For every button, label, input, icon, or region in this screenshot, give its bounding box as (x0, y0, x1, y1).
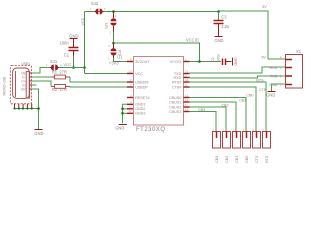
svg-text:CTS: CTS (255, 155, 259, 163)
svg-text:SJ2: SJ2 (91, 1, 99, 6)
svg-text:CBUS1: CBUS1 (169, 100, 181, 104)
junction 5V rail at SJ3 (112, 10, 115, 13)
wire VCC vertical rail (84, 12, 86, 74)
svg-text:4: 4 (130, 100, 132, 104)
svg-text:2: 2 (115, 14, 117, 18)
U1 pin 3V3OUT (127, 57, 150, 64)
U1 pin RXD (174, 73, 190, 80)
svg-text:2: 2 (130, 78, 132, 82)
svg-text:VCC: VCC (135, 72, 143, 76)
svg-text:3: 3 (130, 93, 132, 97)
svg-text:U1: U1 (117, 54, 123, 59)
connector USB1 dashed outline (2, 62, 31, 104)
svg-text:5: 5 (185, 103, 187, 107)
svg-text:100n: 100n (60, 40, 70, 45)
wire RXD to X1 (190, 76, 286, 78)
svg-text:2: 2 (104, 7, 106, 11)
U1 pin VCC (127, 69, 143, 76)
svg-text:RTS#: RTS# (172, 80, 182, 84)
svg-text:RESET#: RESET# (135, 96, 150, 100)
svg-text:14: 14 (185, 107, 189, 111)
svg-text:1: 1 (222, 127, 224, 131)
svg-text:1: 1 (46, 63, 48, 67)
solder jumper SJ3 (105, 12, 117, 35)
svg-text:+3V3: +3V3 (109, 61, 119, 66)
capacitor C3 2.2u (214, 12, 230, 37)
wire SJ1 to VCC rail (59, 67, 85, 69)
svg-text:GND2: GND2 (135, 107, 145, 111)
U1 pin RTS# (172, 78, 190, 85)
svg-text:SJ1: SJ1 (50, 59, 58, 64)
wire R2 to USBDP (70, 85, 127, 88)
svg-text:1: 1 (232, 127, 234, 131)
wire VCCIO to C2 (190, 61, 221, 63)
svg-text:CTS#: CTS# (172, 85, 182, 89)
svg-text:C3: C3 (221, 15, 227, 20)
solder jumper SJ1 (46, 59, 72, 70)
wire GND2 join (123, 108, 128, 110)
junction GND shield (37, 107, 40, 110)
svg-text:FT230XQ: FT230XQ (136, 127, 166, 133)
wire CBUS1 to pad (190, 102, 236, 132)
svg-text:VCC: VCC (81, 17, 85, 25)
svg-text:5V: 5V (262, 5, 267, 9)
svg-text:10: 10 (128, 69, 132, 73)
svg-text:RXD: RXD (174, 76, 182, 80)
wire CTS to pad (190, 87, 256, 132)
svg-text:1: 1 (242, 127, 244, 131)
svg-text:GND: GND (69, 33, 78, 38)
U1 pin USBDP (127, 83, 148, 90)
wire RTS to pad (190, 82, 266, 132)
resistor R2 27R (51, 85, 70, 93)
svg-text:4: 4 (185, 83, 187, 87)
svg-text:CB0: CB0 (246, 94, 253, 98)
U1 pin CBUS2 (169, 103, 190, 110)
svg-text:USBDM: USBDM (135, 80, 148, 84)
svg-text:GN: GN (21, 87, 26, 91)
svg-text:VCCIO: VCCIO (186, 38, 199, 43)
svg-text:CTS: CTS (259, 88, 267, 92)
svg-text:CB1: CB1 (235, 156, 239, 163)
solder jumper SJ4 (108, 43, 122, 60)
U1 pin USBDM (127, 78, 149, 85)
junction shield pins (13, 107, 32, 109)
U1 pin GND3 (127, 109, 145, 116)
svg-text:VCCIO: VCCIO (170, 60, 182, 64)
svg-text:X1: X1 (296, 49, 302, 54)
connector USB1 shell (13, 68, 30, 98)
svg-text:100n: 100n (216, 54, 220, 62)
svg-text:2: 2 (280, 74, 282, 78)
wire GND1 join (123, 104, 128, 123)
svg-text:RXD: RXD (270, 66, 278, 70)
test pad CB1 (232, 127, 240, 162)
wire R1 to USBDM (70, 77, 127, 82)
connector X1 (286, 49, 303, 88)
capacitor C1 100n with GND above (60, 33, 79, 57)
U1 pin TXD (174, 69, 190, 76)
test pad CB2 (222, 127, 230, 162)
svg-text:1: 1 (262, 127, 264, 131)
svg-text:13: 13 (185, 98, 189, 102)
svg-text:C1: C1 (64, 52, 70, 57)
op IC U1 FT230XQ box (134, 57, 184, 126)
wire CBUS0 to pad (190, 98, 246, 132)
svg-text:2: 2 (108, 44, 110, 48)
svg-text:CB3: CB3 (215, 156, 219, 163)
svg-text:GND: GND (214, 38, 223, 43)
svg-text:SJ3: SJ3 (105, 23, 109, 29)
junction GND2 (121, 108, 124, 111)
U1 pin GND1 (127, 100, 145, 107)
ground symbol below C3 (215, 36, 223, 38)
svg-text:CB0: CB0 (245, 156, 249, 163)
svg-text:3V3OUT: 3V3OUT (135, 60, 150, 64)
capacitor C2 100n (211, 54, 232, 65)
svg-text:VCC: VCC (63, 63, 71, 67)
svg-text:C2: C2 (211, 57, 215, 62)
svg-text:GND: GND (115, 125, 124, 130)
svg-text:1: 1 (89, 7, 91, 11)
svg-text:4: 4 (280, 55, 282, 59)
U1 pin GND2 (127, 105, 145, 112)
USB1 shield pins (15, 104, 32, 109)
svg-text:16: 16 (185, 78, 189, 82)
wire D+ to R2 (32, 81, 51, 86)
ground symbol right of C2 (232, 58, 234, 66)
U1 pin RESET# (127, 93, 150, 100)
U1 pin CBUS0 (169, 93, 190, 100)
wire C1 to VCC node (73, 56, 75, 68)
svg-text:CBUS2: CBUS2 (169, 105, 181, 109)
svg-text:7: 7 (130, 83, 132, 87)
svg-text:RTS: RTS (256, 78, 264, 82)
svg-text:3: 3 (280, 66, 282, 70)
svg-text:CB2: CB2 (221, 103, 228, 107)
svg-text:USBDP: USBDP (135, 85, 148, 89)
test pad CB3 (212, 127, 220, 162)
svg-text:1: 1 (252, 127, 254, 131)
svg-text:5V: 5V (261, 55, 266, 59)
wire VBUS from USB to SJ1 (32, 68, 50, 74)
svg-text:CBUS3: CBUS3 (169, 110, 181, 114)
test pad CB0 (242, 127, 250, 162)
test pad RTS (262, 127, 270, 162)
wire TXD to X1 (190, 67, 286, 73)
resistor R1 27R (51, 70, 70, 79)
wire shield bus (15, 108, 39, 110)
ground symbol below X1 (268, 91, 276, 93)
junction VCCIO (198, 60, 201, 63)
svg-text:MICRO-USB: MICRO-USB (2, 76, 6, 96)
svg-text:GND: GND (233, 58, 237, 67)
svg-text:GND1: GND1 (135, 103, 145, 107)
svg-text:12: 12 (185, 93, 189, 97)
svg-text:8: 8 (130, 57, 132, 61)
svg-text:1: 1 (109, 31, 111, 35)
junction SJ1 net at VCC rail (83, 66, 86, 69)
svg-text:2.2u: 2.2u (221, 24, 229, 29)
wire top 5V rail (85, 11, 219, 13)
solder jumper SJ2 (89, 1, 105, 15)
svg-text:1: 1 (108, 56, 110, 60)
connector USB1 shell inner wall (15, 71, 17, 97)
svg-text:1: 1 (212, 127, 214, 131)
svg-text:GND: GND (34, 131, 43, 136)
svg-text:CB1: CB1 (239, 98, 246, 102)
svg-text:13: 13 (128, 109, 132, 113)
test pad CTS (252, 127, 260, 162)
wire GND3 join (123, 112, 128, 114)
U1 pin CBUS3 (169, 107, 190, 114)
junction VCCIO node (112, 42, 115, 45)
svg-text:2: 2 (60, 63, 62, 67)
svg-text:1: 1 (185, 57, 187, 61)
svg-text:CB3: CB3 (198, 108, 205, 112)
svg-text:GND: GND (266, 92, 275, 97)
connector USB1 pin block (26, 72, 29, 99)
junction 5V rail at C3 (217, 10, 220, 13)
ground symbol below USB (35, 129, 43, 131)
U1 pin CTS# (172, 83, 190, 90)
wire CBUS2 to pad (190, 107, 226, 132)
svg-text:CB2: CB2 (225, 156, 229, 163)
junction GND3 (121, 112, 124, 115)
ground symbol below U1 (119, 124, 127, 126)
svg-text:RTS: RTS (265, 155, 269, 163)
wire top 5V rail right segment (219, 11, 286, 59)
U1 pin VCCIO (170, 57, 190, 64)
svg-text:27R: 27R (59, 70, 67, 75)
wire CBUS3 to pad (190, 112, 216, 132)
wire USB GND down (32, 89, 39, 129)
wire +3V3 from SJ4 to 3V3OUT (114, 58, 128, 61)
svg-text:R1: R1 (52, 70, 58, 75)
wire X1 GND down (272, 84, 286, 91)
wire VCC into IC pin (85, 73, 128, 75)
svg-text:12: 12 (128, 105, 132, 109)
wire VCCIO rail (114, 43, 200, 62)
svg-text:GND3: GND3 (135, 112, 145, 116)
svg-text:CBUS0: CBUS0 (169, 96, 181, 100)
U1 pin CBUS1 (169, 98, 190, 105)
junction C1 at SJ1 net (72, 66, 75, 69)
wire D- to R1 (32, 76, 51, 78)
wire SJ3 to VCCIO rail (113, 32, 115, 43)
svg-text:TXD: TXD (270, 74, 278, 78)
